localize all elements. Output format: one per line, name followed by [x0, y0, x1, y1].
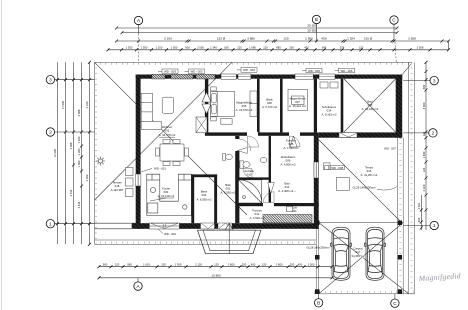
- svg-text:120: 120: [214, 262, 219, 266]
- terrace door WD-008 in middle wall: [314, 162, 319, 178]
- svg-text:C: C: [392, 18, 396, 24]
- grid bubble B bottom: [314, 294, 322, 307]
- car 2: [364, 227, 385, 280]
- svg-text:1 500: 1 500: [141, 45, 148, 49]
- wardrobe bedroom: [250, 91, 257, 117]
- dimension left texts: [53, 100, 89, 208]
- svg-text:1 200: 1 200: [156, 45, 163, 49]
- svg-text:1 800: 1 800: [276, 262, 283, 266]
- room label kueche: [150, 187, 175, 202]
- roof diagonal bad room X2: [344, 79, 396, 132]
- wc small room fixture: [223, 154, 233, 161]
- sliding door bedroom: [202, 92, 211, 114]
- svg-text:B: B: [315, 17, 318, 23]
- svg-text:34,465 m2: 34,465 m2: [351, 254, 365, 258]
- WD-001 label: [141, 167, 166, 172]
- door gap corridor b: [289, 132, 300, 136]
- svg-text:1 800: 1 800: [228, 262, 235, 266]
- svg-text:3 880: 3 880: [247, 37, 255, 41]
- grid bubble A top: [134, 16, 142, 62]
- dimension row3 segments: [115, 37, 450, 43]
- svg-text:200: 200: [289, 45, 294, 49]
- window WD-004 top white pair: [221, 74, 251, 79]
- terrace-carport beam line: [319, 222, 404, 224]
- svg-text:3 508: 3 508: [408, 37, 416, 41]
- svg-text:A.126,987: A.126,987: [111, 188, 124, 192]
- svg-text:120: 120: [115, 262, 120, 266]
- wall left exterior: [136, 75, 141, 229]
- svg-text:2 320: 2 320: [422, 184, 426, 191]
- svg-text:1 300: 1 300: [126, 45, 133, 49]
- svg-text:120: 120: [262, 262, 267, 266]
- roof diagonal carport X1: [319, 223, 409, 294]
- window WD-001 left wall: [135, 174, 141, 186]
- window WD-003 b top hatched: [171, 74, 193, 79]
- svg-text:120 Ø: 120 Ø: [217, 37, 226, 41]
- grid bubble 3 left: [46, 76, 94, 84]
- dimension row1 total 20300: [115, 24, 399, 30]
- terrace door in bad bottom wall: [339, 133, 357, 138]
- label GL28 bottom: [306, 245, 330, 249]
- svg-text:WD - 008: WD - 008: [331, 166, 343, 170]
- svg-text:5 100: 5 100: [164, 37, 172, 41]
- pantry room walls: [191, 174, 217, 223]
- right end vertical connector top dims: [448, 41, 450, 50]
- svg-text:120: 120: [359, 45, 364, 49]
- roof diagonal D1 living: [95, 62, 248, 215]
- dimension right column: [417, 61, 428, 230]
- svg-text:120: 120: [237, 45, 242, 49]
- room label korridor: [283, 139, 299, 151]
- WD-003 label b: [185, 69, 205, 74]
- kitchen counter U: [147, 174, 192, 215]
- svg-text:480: 480: [422, 84, 426, 89]
- grid bubble 1 right: [403, 221, 438, 229]
- svg-text:3: 3: [49, 77, 52, 83]
- door leaf bad010: [268, 183, 275, 194]
- room label terrasse016: [361, 166, 378, 178]
- planter boxes left terrace: [126, 168, 134, 197]
- technik equipment: [320, 82, 338, 88]
- svg-text:3 514: 3 514: [69, 189, 73, 196]
- svg-text:GL28 140x250mm: GL28 140x250mm: [306, 245, 330, 249]
- svg-text:A. 7,660 m2: A. 7,660 m2: [283, 146, 299, 150]
- wall bottom-left exterior: [132, 223, 319, 229]
- door V bottom wall b: [218, 223, 232, 229]
- eaves outline right band: [409, 62, 415, 293]
- room label schlafzimmer: [236, 101, 253, 113]
- WD-007 label: [384, 147, 396, 151]
- wall bedroom/kind: [257, 79, 260, 133]
- room label technikraum: [321, 105, 337, 117]
- svg-text:WD - 003: WD - 003: [191, 70, 203, 74]
- window WD-003 a top hatched: [152, 74, 165, 79]
- door arc vorhalle: [239, 139, 251, 151]
- entry mat hatch: [263, 215, 312, 223]
- wall bath/vorhaus horizontal: [236, 203, 319, 206]
- svg-text:120: 120: [422, 167, 426, 172]
- room label bad015: [362, 100, 379, 112]
- eaves outline carport bottom: [314, 292, 415, 294]
- eaves outline top: [95, 62, 412, 64]
- WD-003 label a: [158, 69, 178, 74]
- wall kind/closet: [280, 79, 283, 133]
- svg-text:1 680: 1 680: [249, 45, 256, 49]
- svg-text:900: 900: [185, 45, 190, 49]
- window WD-005 top white: [295, 74, 313, 79]
- svg-text:4 100: 4 100: [85, 101, 89, 108]
- dimension left ticks: [56, 61, 91, 246]
- car 1: [330, 227, 351, 280]
- svg-text:450: 450: [304, 45, 309, 49]
- wall top exterior: [136, 75, 403, 79]
- svg-text:120: 120: [161, 262, 166, 266]
- svg-text:GL28 140x200mm: GL28 140x200mm: [352, 185, 376, 189]
- svg-text:2 560: 2 560: [305, 37, 313, 41]
- bed: [211, 87, 235, 124]
- svg-text:A. 15,421 m2: A. 15,421 m2: [289, 104, 306, 108]
- svg-text:WD - 003: WD - 003: [164, 70, 176, 74]
- svg-text:A. 4,520 m2: A. 4,520 m2: [249, 216, 265, 220]
- terrace table 2: [336, 177, 349, 190]
- svg-text:002: 002: [202, 193, 207, 197]
- svg-text:2 386: 2 386: [69, 142, 73, 149]
- corner brace top right: [402, 64, 411, 75]
- door leaf vorhalle: [237, 148, 247, 154]
- svg-text:1 924: 1 924: [347, 37, 355, 41]
- svg-text:A. 12,128 m2: A. 12,128 m2: [158, 194, 175, 198]
- svg-text:19 500: 19 500: [307, 28, 317, 32]
- room label wohnen: [159, 125, 176, 137]
- coffee table: [162, 97, 173, 113]
- wall bath partition vertical: [269, 136, 271, 203]
- carport left edge: [316, 229, 319, 294]
- roof diagonal carport X2: [319, 223, 404, 294]
- svg-text:WD - 004: WD - 004: [243, 68, 255, 72]
- svg-text:A. 13,578 m2: A. 13,578 m2: [236, 108, 253, 112]
- svg-text:A. 11,058 m2: A. 11,058 m2: [241, 177, 258, 181]
- WD-005 label: [302, 68, 322, 73]
- svg-text:A. 6,720 m2: A. 6,720 m2: [262, 105, 278, 109]
- door V bottom wall a: [201, 223, 215, 229]
- sofa living: [141, 93, 161, 129]
- WD-004 label: [237, 68, 257, 73]
- window WD-002 bottom: [149, 223, 179, 229]
- label GL28 terrace: [352, 185, 397, 190]
- svg-text:120: 120: [283, 37, 288, 41]
- svg-text:WD - 006: WD - 006: [341, 69, 353, 73]
- window WD-003 c top hatched: [196, 74, 215, 79]
- svg-text:400: 400: [417, 217, 421, 222]
- grid bubble 2 right: [403, 129, 437, 137]
- svg-text:885: 885: [276, 45, 281, 49]
- svg-text:A. 6,550 m2: A. 6,550 m2: [196, 198, 212, 202]
- svg-text:1 340: 1 340: [210, 45, 217, 49]
- svg-text:3 508: 3 508: [417, 45, 424, 49]
- eaves outline left: [95, 62, 97, 244]
- svg-text:13 800: 13 800: [211, 274, 221, 278]
- svg-text:3 614: 3 614: [77, 201, 81, 208]
- svg-text:C: C: [393, 301, 397, 307]
- svg-text:11 000: 11 000: [53, 148, 57, 157]
- WD-006 label: [335, 68, 355, 73]
- svg-text:2: 2: [432, 131, 435, 137]
- toilet: [240, 161, 250, 168]
- svg-text:A. 9,181 m2: A. 9,181 m2: [321, 113, 337, 117]
- svg-text:120 Ø: 120 Ø: [364, 37, 373, 41]
- svg-text:1 480: 1 480: [422, 151, 426, 158]
- svg-text:2: 2: [49, 130, 52, 136]
- svg-text:120: 120: [422, 131, 426, 136]
- door leaf abstellraum: [290, 136, 297, 147]
- svg-text:2 300: 2 300: [85, 174, 89, 181]
- svg-text:4 586: 4 586: [77, 109, 81, 116]
- page left edge scan line: [1, 0, 3, 310]
- svg-text:001: 001: [165, 128, 170, 132]
- room label bad010: [278, 182, 296, 194]
- dining table: [156, 140, 189, 166]
- grid bubble A bottom: [134, 278, 142, 290]
- svg-text:WD - 001: WD - 001: [154, 167, 166, 171]
- svg-text:1 000: 1 000: [77, 160, 81, 167]
- room label speis: [220, 183, 236, 195]
- carport right inner line: [398, 138, 404, 294]
- svg-text:500: 500: [224, 45, 229, 49]
- door arc vorhaus: [263, 192, 274, 203]
- svg-text:WD - 002: WD - 002: [164, 232, 176, 236]
- svg-text:200: 200: [290, 262, 295, 266]
- dimension left column lines: [58, 62, 90, 244]
- window WD-006 top white: [319, 74, 335, 79]
- svg-text:1 300: 1 300: [175, 262, 182, 266]
- door arc corridor b: [289, 136, 300, 147]
- wall bath mid horizontal: [239, 177, 271, 179]
- svg-text:B: B: [317, 301, 320, 307]
- svg-text:A. 4,800 m2: A. 4,800 m2: [280, 163, 296, 167]
- fireplace: [196, 117, 207, 133]
- roof diagonal bad room X1: [344, 79, 396, 132]
- luft shaft: [286, 207, 293, 212]
- carport posts: [315, 221, 402, 294]
- svg-text:WD - 007: WD - 007: [384, 147, 396, 151]
- svg-text:3: 3: [433, 78, 436, 84]
- svg-text:120: 120: [263, 45, 268, 49]
- room label vorhalle: [241, 169, 258, 181]
- svg-text:011: 011: [292, 209, 297, 213]
- WD-002 label: [158, 229, 176, 236]
- dimension row4 segments: [107, 45, 451, 51]
- svg-text:549: 549: [322, 45, 327, 49]
- svg-text:450: 450: [321, 37, 326, 41]
- grid bubble 1 left: [46, 220, 94, 228]
- dimension bottom row1: [98, 262, 334, 268]
- svg-text:2 000: 2 000: [197, 45, 204, 49]
- grid bubble 2 left: [46, 128, 94, 136]
- closet room inner box: [288, 90, 308, 111]
- svg-text:A. 5,550 m2: A. 5,550 m2: [220, 191, 236, 195]
- wall right exterior (bad): [396, 75, 403, 138]
- svg-text:1 500: 1 500: [308, 262, 315, 266]
- wall middle right: [314, 132, 319, 228]
- svg-text:400: 400: [251, 262, 256, 266]
- svg-text:574: 574: [340, 45, 345, 49]
- door arc bath: [243, 169, 252, 178]
- WD-008 label: [325, 165, 345, 169]
- svg-text:2 120: 2 120: [195, 262, 202, 266]
- wall technik/bad: [341, 79, 344, 133]
- terrace paving line left: [95, 223, 136, 229]
- roof diagonal terrace: [319, 140, 402, 223]
- svg-text:4 000: 4 000: [422, 102, 426, 109]
- carport label: [351, 247, 365, 259]
- tree symbol left terrace: [96, 157, 105, 166]
- eaves outline bottom house: [95, 240, 317, 244]
- grid bubble 3 right: [403, 76, 438, 84]
- wall bath/living vertical: [235, 136, 239, 223]
- room label closet: [289, 97, 306, 109]
- door gap vorhaus: [263, 203, 274, 207]
- room label bank002: [196, 190, 212, 202]
- svg-text:1 601: 1 601: [143, 262, 150, 266]
- terrace table 1: [324, 163, 331, 170]
- svg-text:1 500: 1 500: [171, 45, 178, 49]
- room label terrasse018: [111, 181, 124, 193]
- svg-text:17 000: 17 000: [61, 100, 65, 109]
- svg-text:200: 200: [242, 262, 247, 266]
- svg-text:A. 31,201 m2: A. 31,201 m2: [361, 173, 378, 177]
- svg-text:1: 1: [433, 223, 436, 229]
- wall corridor horizontal: [205, 132, 315, 135]
- room label luft: [292, 206, 297, 214]
- svg-text:900: 900: [103, 262, 108, 266]
- room label kind: [262, 98, 278, 110]
- svg-text:1 200: 1 200: [77, 136, 81, 143]
- door gap corridor a: [247, 132, 258, 136]
- svg-text:WD - 005: WD - 005: [308, 69, 320, 73]
- grid bubble C bottom: [391, 294, 399, 307]
- washbasin bath: [260, 157, 267, 162]
- wall living/bedroom: [205, 79, 208, 133]
- grid bubble B top: [312, 15, 320, 42]
- grid bubble C top: [390, 16, 398, 42]
- door arc bedroom: [248, 136, 259, 147]
- svg-text:980: 980: [127, 262, 132, 266]
- grid C line extension: [395, 42, 396, 62]
- room label vorhaus: [249, 209, 265, 221]
- svg-text:1 501: 1 501: [417, 202, 421, 209]
- dimension bottom row2 13800: [98, 274, 334, 280]
- dimension row2 19500: [121, 28, 399, 34]
- porch canopy: [198, 223, 262, 254]
- svg-text:A. 14,162 m2: A. 14,162 m2: [362, 107, 379, 111]
- shower: [239, 180, 262, 203]
- room label abstellraum: [280, 155, 296, 167]
- svg-text:A. 44,778 m2: A. 44,778 m2: [159, 133, 176, 137]
- svg-text:400: 400: [298, 262, 303, 266]
- svg-text:A. 4,408 m2 ○: A. 4,408 m2 ○: [278, 189, 296, 193]
- svg-text:1: 1: [49, 221, 52, 227]
- door gap vorhalle: [235, 139, 240, 151]
- wall bad bottom: [319, 132, 403, 137]
- svg-text:20 300: 20 300: [307, 24, 317, 28]
- roof diagonal D2 living: [95, 62, 233, 200]
- wall closet/technik: [314, 79, 317, 133]
- svg-text:2 300: 2 300: [77, 148, 81, 155]
